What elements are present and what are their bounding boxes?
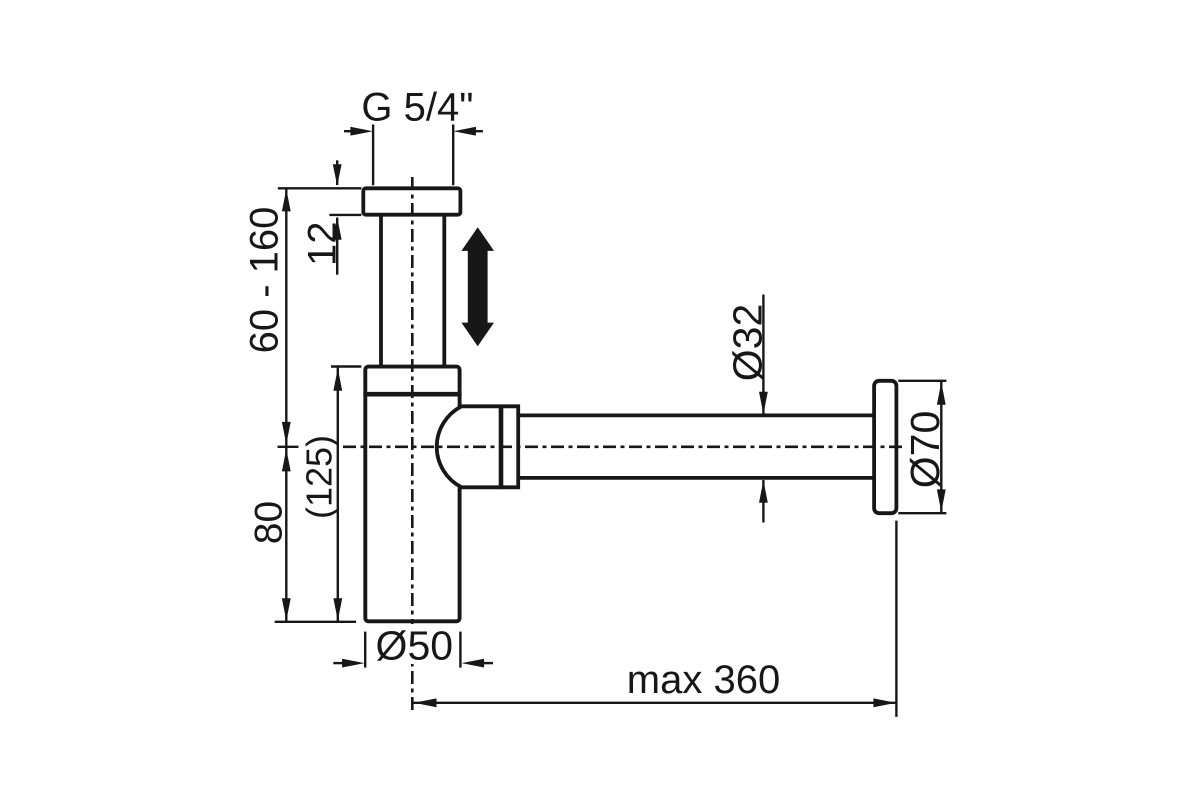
svg-text:Ø50: Ø50: [376, 623, 454, 669]
svg-text:60 - 160: 60 - 160: [243, 207, 287, 354]
svg-text:max 360: max 360: [627, 658, 780, 702]
svg-text:Ø32: Ø32: [725, 304, 771, 382]
svg-text:G 5/4": G 5/4": [361, 86, 473, 130]
svg-text:Ø70: Ø70: [902, 411, 948, 489]
svg-text:12: 12: [301, 222, 345, 266]
svg-text:(125): (125): [299, 435, 340, 519]
svg-text:80: 80: [248, 501, 291, 544]
